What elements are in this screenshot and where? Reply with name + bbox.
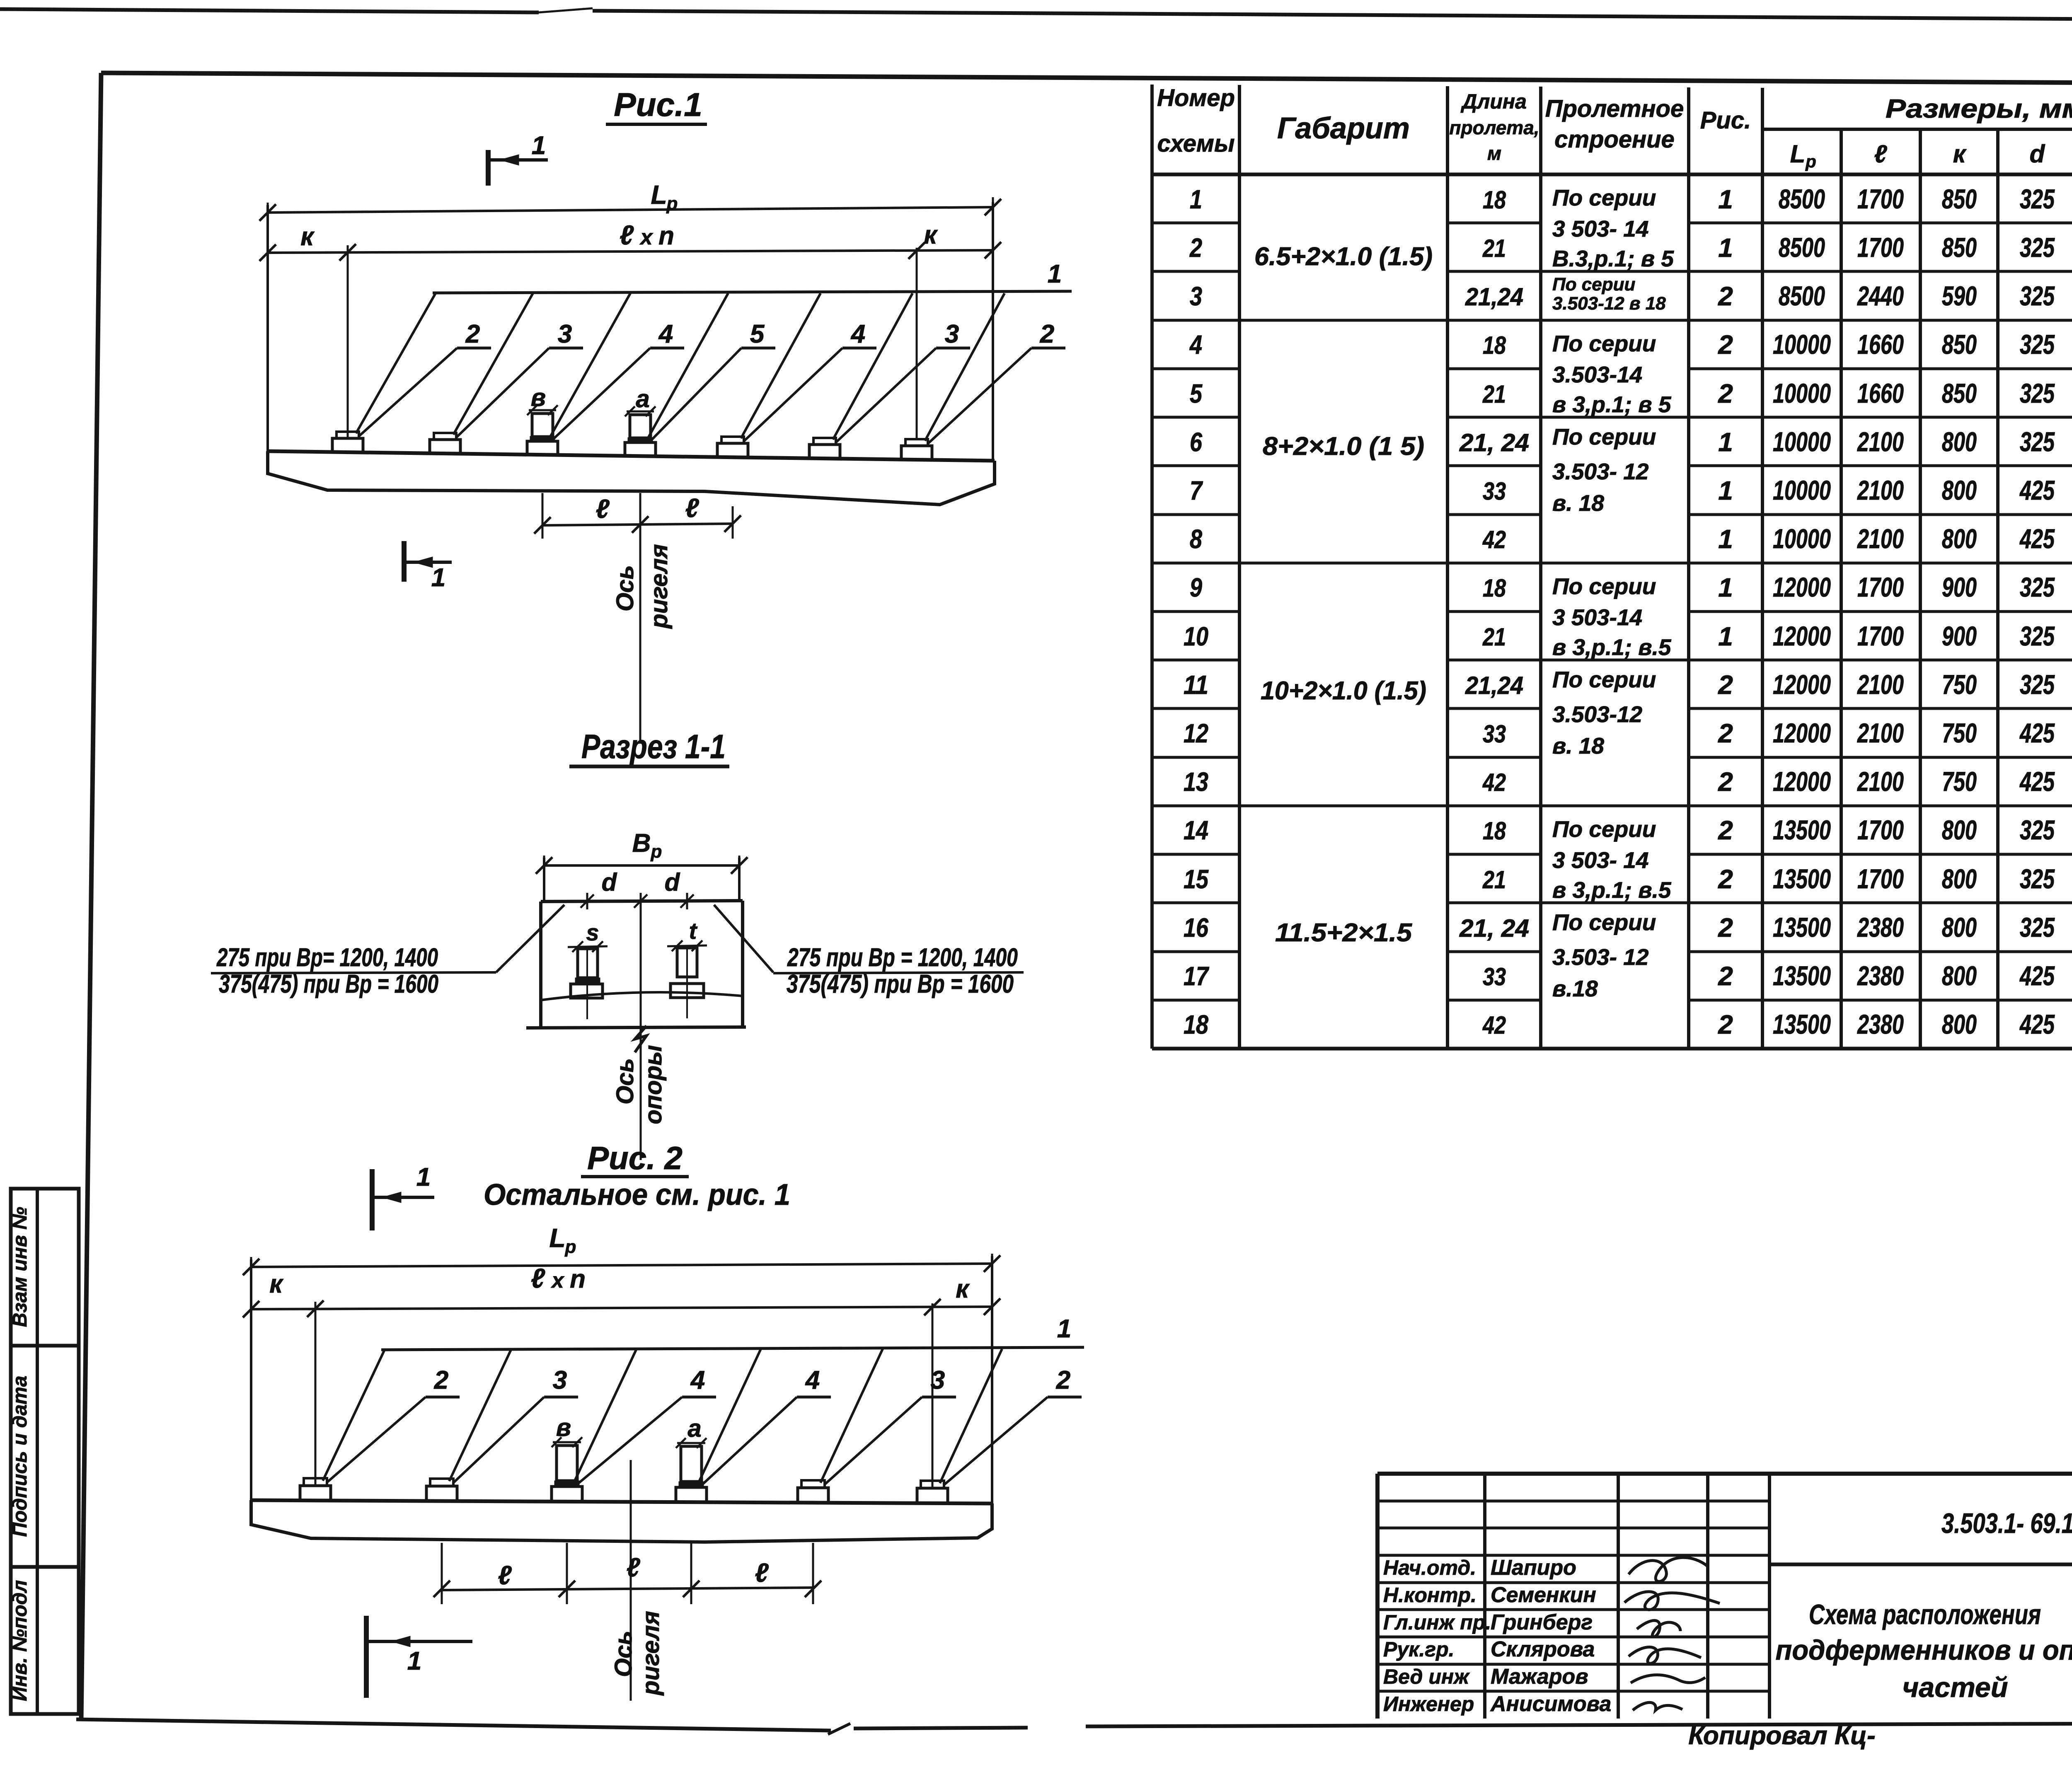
extension line k-right fig2 bbox=[932, 1303, 934, 1488]
svg-text:325: 325 bbox=[2020, 232, 2055, 263]
table sub-header verticals (sizes columns) bbox=[1840, 129, 1843, 1049]
svg-text:a: a bbox=[687, 1414, 701, 1442]
crossbeam outline fig2 bbox=[251, 1500, 992, 1504]
svg-text:1: 1 bbox=[1718, 427, 1733, 457]
svg-text:2440: 2440 bbox=[1857, 280, 1904, 311]
svg-text:1700: 1700 bbox=[1857, 572, 1904, 602]
svg-text:ригеля: ригеля bbox=[637, 1611, 664, 1696]
svg-text:По серии: По серии bbox=[1552, 424, 1656, 450]
svg-text:13500: 13500 bbox=[1773, 815, 1831, 845]
svg-text:d: d bbox=[2030, 140, 2045, 168]
svg-text:10000: 10000 bbox=[1773, 475, 1831, 505]
bearing pad 1 fig1 bbox=[332, 438, 363, 452]
svg-text:8500: 8500 bbox=[1779, 184, 1825, 214]
svg-text:Номер: Номер bbox=[1157, 85, 1235, 111]
svg-text:ригеля: ригеля bbox=[646, 544, 673, 629]
svg-text:L: L bbox=[1790, 140, 1806, 168]
extension line k-left fig2 bbox=[315, 1302, 317, 1487]
section marker bottom fig2 bbox=[364, 1616, 369, 1698]
svg-text:к: к bbox=[956, 1275, 970, 1303]
svg-text:750: 750 bbox=[1942, 718, 1977, 748]
svg-text:Подпись и дата: Подпись и дата bbox=[9, 1375, 31, 1537]
svg-text:425: 425 bbox=[2019, 718, 2055, 748]
svg-text:2380: 2380 bbox=[1857, 960, 1904, 991]
svg-text:21: 21 bbox=[1482, 866, 1506, 894]
extension lines Bp section bbox=[543, 858, 545, 902]
svg-text:р: р bbox=[651, 841, 662, 862]
svg-text:ℓ: ℓ bbox=[626, 1552, 640, 1582]
bearing pad 5 fig2 bbox=[798, 1488, 828, 1503]
svg-text:6: 6 bbox=[1190, 427, 1202, 457]
bearing pad 1 fig2 bbox=[300, 1486, 331, 1501]
svg-text:325: 325 bbox=[2020, 815, 2055, 845]
svg-text:Шапиро: Шапиро bbox=[1491, 1556, 1576, 1580]
svg-text:800: 800 bbox=[1942, 960, 1977, 991]
svg-text:12000: 12000 bbox=[1773, 766, 1831, 797]
dimension line l x n fig2 bbox=[251, 1307, 992, 1309]
svg-text:2: 2 bbox=[1718, 1010, 1733, 1039]
bearing pad 7 fig1 bbox=[901, 446, 932, 460]
svg-text:21: 21 bbox=[1482, 380, 1506, 408]
svg-text:1: 1 bbox=[1718, 476, 1733, 505]
note leader left section bbox=[496, 905, 564, 972]
svg-text:2100: 2100 bbox=[1857, 523, 1904, 554]
section marker 1-1 top bbox=[486, 150, 491, 186]
svg-text:425: 425 bbox=[2019, 1009, 2055, 1039]
svg-text:Копировал Кц-: Копировал Кц- bbox=[1688, 1721, 1876, 1750]
svg-text:частей: частей bbox=[1903, 1672, 2008, 1703]
svg-text:n: n bbox=[570, 1265, 586, 1293]
svg-text:2: 2 bbox=[1718, 961, 1733, 991]
svg-text:2: 2 bbox=[1718, 864, 1733, 894]
svg-text:пролета,: пролета, bbox=[1449, 117, 1539, 138]
svg-text:12: 12 bbox=[1184, 718, 1208, 748]
svg-text:d: d bbox=[602, 868, 617, 896]
svg-text:Нач.отд.: Нач.отд. bbox=[1383, 1556, 1476, 1579]
svg-text:18: 18 bbox=[1483, 331, 1506, 359]
svg-text:850: 850 bbox=[1942, 329, 1977, 360]
extension line right fig2 bbox=[991, 1256, 993, 1504]
svg-text:1: 1 bbox=[1057, 1315, 1071, 1343]
bearing pad 6 fig1 bbox=[809, 445, 840, 459]
section marker 1-1 bottom fig1 bbox=[402, 541, 407, 582]
svg-text:13500: 13500 bbox=[1773, 960, 1831, 991]
extension line k-left fig1 bbox=[347, 245, 349, 438]
axis of support line section bbox=[640, 902, 642, 1160]
dimension line Lp fig2 bbox=[251, 1264, 992, 1267]
svg-text:3 503- 14: 3 503- 14 bbox=[1552, 216, 1648, 242]
svg-text:13: 13 bbox=[1184, 767, 1208, 797]
bearing pad 4 fig1 bbox=[625, 442, 656, 456]
svg-text:Рис. 2: Рис. 2 bbox=[587, 1140, 683, 1176]
bearing pad 2 fig1 bbox=[430, 440, 460, 454]
svg-text:Анисимова: Анисимова bbox=[1490, 1692, 1611, 1716]
extension line left fig2 bbox=[250, 1259, 252, 1500]
svg-text:21,24: 21,24 bbox=[1465, 283, 1523, 311]
svg-text:ℓ: ℓ bbox=[755, 1558, 769, 1588]
svg-text:в 3,р.1; в.5: в 3,р.1; в.5 bbox=[1552, 877, 1672, 903]
svg-text:d: d bbox=[665, 868, 680, 896]
svg-text:2: 2 bbox=[1718, 330, 1733, 360]
svg-text:325: 325 bbox=[2020, 426, 2055, 457]
svg-text:325: 325 bbox=[2020, 378, 2055, 409]
svg-text:425: 425 bbox=[2019, 523, 2055, 554]
svg-text:4: 4 bbox=[1189, 330, 1202, 360]
svg-text:Рук.гр.: Рук.гр. bbox=[1383, 1638, 1455, 1661]
section box sides bbox=[539, 902, 542, 1027]
signature squiggles bbox=[1629, 1557, 1707, 1581]
svg-text:Гринберг: Гринберг bbox=[1491, 1610, 1593, 1634]
section box top / d dimension line bbox=[541, 901, 743, 902]
svg-text:1: 1 bbox=[1718, 621, 1733, 651]
svg-text:850: 850 bbox=[1942, 378, 1977, 409]
svg-text:Пролетное: Пролетное bbox=[1545, 95, 1684, 122]
svg-text:2100: 2100 bbox=[1857, 718, 1904, 748]
svg-text:12000: 12000 bbox=[1773, 621, 1831, 651]
table bottom line bbox=[1152, 1047, 2072, 1051]
svg-text:325: 325 bbox=[2020, 280, 2055, 311]
bearing pad 4 fig2 bbox=[676, 1487, 707, 1502]
dimension l l l under fig2 bbox=[441, 1543, 443, 1604]
svg-text:3: 3 bbox=[945, 320, 959, 348]
svg-text:в.18: в.18 bbox=[1552, 976, 1598, 1001]
extension line k-right fig1 bbox=[916, 248, 918, 438]
svg-text:800: 800 bbox=[1942, 475, 1977, 505]
svg-text:12000: 12000 bbox=[1773, 572, 1831, 602]
svg-text:8500: 8500 bbox=[1779, 280, 1825, 311]
svg-text:33: 33 bbox=[1483, 477, 1506, 505]
svg-text:x: x bbox=[551, 1269, 565, 1293]
svg-text:4: 4 bbox=[850, 320, 865, 348]
extension line right fig1 bbox=[992, 202, 994, 461]
svg-text:275 при Вр = 1200, 1400: 275 при Вр = 1200, 1400 bbox=[787, 943, 1018, 972]
svg-text:2380: 2380 bbox=[1857, 912, 1904, 943]
svg-text:3.503-12 в 18: 3.503-12 в 18 bbox=[1552, 293, 1666, 314]
svg-text:По серии: По серии bbox=[1552, 667, 1656, 692]
svg-text:800: 800 bbox=[1942, 863, 1977, 894]
dimension line l x n fig1 bbox=[268, 250, 993, 253]
svg-text:По серии: По серии bbox=[1552, 909, 1656, 935]
svg-text:3.503- 12: 3.503- 12 bbox=[1552, 459, 1649, 484]
svg-text:1: 1 bbox=[431, 563, 445, 592]
svg-text:строение: строение bbox=[1554, 126, 1675, 153]
svg-text:1: 1 bbox=[532, 131, 546, 160]
svg-text:к: к bbox=[924, 221, 938, 249]
svg-text:По серии: По серии bbox=[1552, 331, 1656, 356]
svg-text:в 3,р.1; в 5: в 3,р.1; в 5 bbox=[1552, 392, 1672, 417]
svg-text:18: 18 bbox=[1184, 1010, 1208, 1039]
leader lines to item 1 fig1 bbox=[356, 293, 436, 433]
svg-text:325: 325 bbox=[2020, 572, 2055, 602]
svg-text:1: 1 bbox=[1718, 233, 1733, 263]
svg-text:750: 750 bbox=[1942, 669, 1977, 700]
svg-text:Длина: Длина bbox=[1460, 90, 1527, 113]
svg-text:1: 1 bbox=[1048, 260, 1062, 288]
svg-text:750: 750 bbox=[1942, 766, 1977, 797]
svg-text:18: 18 bbox=[1483, 817, 1506, 845]
svg-text:325: 325 bbox=[2020, 621, 2055, 651]
title block signature grid bbox=[1483, 1474, 1486, 1719]
svg-text:1: 1 bbox=[1718, 573, 1733, 602]
svg-text:В: В bbox=[632, 829, 651, 858]
svg-text:3.503.1- 69.1: 3.503.1- 69.1 bbox=[1941, 1508, 2072, 1539]
svg-text:По серии: По серии bbox=[1552, 185, 1656, 210]
svg-text:6.5+2×1.0 (1.5): 6.5+2×1.0 (1.5) bbox=[1254, 242, 1433, 271]
svg-text:в: в bbox=[556, 1414, 571, 1441]
bearing pad 2 fig2 bbox=[426, 1486, 457, 1501]
svg-text:900: 900 bbox=[1942, 621, 1977, 651]
svg-text:L: L bbox=[549, 1223, 565, 1253]
svg-text:12000: 12000 bbox=[1773, 669, 1831, 700]
svg-text:5: 5 bbox=[750, 320, 765, 348]
drawing frame border bbox=[101, 73, 2072, 85]
svg-text:По серии: По серии bbox=[1552, 573, 1656, 599]
svg-text:L: L bbox=[651, 180, 667, 210]
pier top curve section bbox=[541, 992, 743, 1000]
svg-text:Ось: Ось bbox=[610, 1631, 637, 1677]
svg-text:11: 11 bbox=[1184, 670, 1208, 700]
svg-text:21, 24: 21, 24 bbox=[1459, 914, 1529, 942]
svg-text:3: 3 bbox=[931, 1366, 945, 1395]
svg-text:14: 14 bbox=[1184, 815, 1208, 845]
svg-text:42: 42 bbox=[1482, 526, 1506, 554]
svg-text:10+2×1.0 (1.5): 10+2×1.0 (1.5) bbox=[1261, 677, 1426, 705]
svg-text:Рис.1: Рис.1 bbox=[614, 86, 702, 123]
svg-text:р: р bbox=[666, 193, 678, 214]
svg-text:10000: 10000 bbox=[1773, 523, 1831, 554]
section marker near Fig.2 bbox=[370, 1169, 375, 1230]
svg-text:t: t bbox=[689, 918, 698, 944]
svg-text:275 при Вр= 1200, 1400: 275 при Вр= 1200, 1400 bbox=[216, 943, 438, 972]
svg-text:По серии: По серии bbox=[1552, 816, 1656, 842]
centerline axis of crossbeam fig1 bbox=[639, 493, 641, 744]
svg-text:1: 1 bbox=[1718, 184, 1733, 214]
svg-text:33: 33 bbox=[1483, 720, 1506, 748]
svg-text:Склярова: Склярова bbox=[1491, 1637, 1595, 1661]
svg-text:8+2×1.0 (1 5): 8+2×1.0 (1 5) bbox=[1263, 432, 1424, 461]
leader lines to item 1 fig2 bbox=[323, 1349, 385, 1481]
svg-text:Инженер: Инженер bbox=[1383, 1692, 1474, 1716]
svg-text:м: м bbox=[1487, 143, 1501, 164]
section box bottom bbox=[526, 1027, 746, 1028]
svg-text:33: 33 bbox=[1483, 963, 1506, 991]
svg-text:325: 325 bbox=[2020, 329, 2055, 360]
svg-text:ℓ: ℓ bbox=[685, 493, 699, 523]
svg-text:3.503-12: 3.503-12 bbox=[1552, 701, 1643, 727]
svg-text:2100: 2100 bbox=[1857, 475, 1904, 505]
svg-text:3.503-14: 3.503-14 bbox=[1552, 362, 1642, 387]
table header bottom line bbox=[1152, 173, 2072, 176]
doc number underline band bbox=[1769, 1563, 2072, 1566]
svg-text:2: 2 bbox=[1718, 281, 1733, 311]
svg-text:11.5+2×1.5: 11.5+2×1.5 bbox=[1275, 919, 1413, 947]
svg-text:По серии: По серии bbox=[1552, 274, 1635, 295]
svg-text:Разрез 1-1: Разрез 1-1 bbox=[581, 728, 726, 766]
svg-text:Остальное см. рис. 1: Остальное см. рис. 1 bbox=[484, 1178, 790, 1211]
svg-text:1: 1 bbox=[407, 1647, 421, 1675]
svg-text:10000: 10000 bbox=[1773, 378, 1831, 409]
svg-text:ℓ: ℓ bbox=[1874, 140, 1888, 168]
svg-text:Габарит: Габарит bbox=[1277, 112, 1410, 145]
svg-text:4: 4 bbox=[805, 1366, 820, 1395]
svg-text:325: 325 bbox=[2020, 863, 2055, 894]
svg-text:900: 900 bbox=[1942, 572, 1977, 602]
svg-text:18: 18 bbox=[1483, 574, 1506, 602]
svg-text:42: 42 bbox=[1482, 1011, 1506, 1039]
svg-text:800: 800 bbox=[1942, 912, 1977, 943]
dimension l l under fig1 bbox=[542, 493, 544, 539]
svg-text:7: 7 bbox=[1190, 476, 1203, 505]
callout line item 1 fig2 bbox=[381, 1347, 1084, 1350]
svg-text:2: 2 bbox=[1718, 379, 1733, 409]
frame bottom border with break bbox=[76, 1719, 831, 1731]
svg-text:3 503- 14: 3 503- 14 bbox=[1552, 847, 1648, 873]
table header split line sizes bbox=[1762, 128, 2072, 131]
svg-text:850: 850 bbox=[1942, 232, 1977, 263]
svg-text:18: 18 bbox=[1483, 186, 1506, 214]
svg-text:2: 2 bbox=[1718, 767, 1733, 797]
svg-text:р: р bbox=[1805, 152, 1816, 171]
svg-text:425: 425 bbox=[2019, 960, 2055, 991]
svg-text:2: 2 bbox=[1718, 718, 1733, 748]
svg-text:13500: 13500 bbox=[1773, 1009, 1831, 1039]
svg-text:к: к bbox=[1953, 140, 1967, 168]
bearing pad 6 fig2 bbox=[917, 1488, 948, 1503]
svg-text:1660: 1660 bbox=[1857, 378, 1904, 409]
svg-text:9: 9 bbox=[1190, 573, 1202, 602]
svg-text:10000: 10000 bbox=[1773, 426, 1831, 457]
svg-text:Семенкин: Семенкин bbox=[1491, 1583, 1596, 1607]
crossbeam outline fig1 bbox=[268, 451, 995, 461]
svg-text:21,24: 21,24 bbox=[1465, 672, 1523, 699]
svg-text:3: 3 bbox=[553, 1366, 567, 1395]
svg-text:ℓ: ℓ bbox=[531, 1263, 545, 1293]
svg-text:12000: 12000 bbox=[1773, 718, 1831, 748]
svg-text:590: 590 bbox=[1942, 280, 1977, 311]
svg-text:Гл.инж пр.: Гл.инж пр. bbox=[1383, 1611, 1491, 1634]
svg-text:в: в bbox=[531, 384, 546, 411]
svg-text:к: к bbox=[300, 222, 315, 251]
svg-text:2: 2 bbox=[1718, 913, 1733, 943]
svg-text:325: 325 bbox=[2020, 669, 2055, 700]
svg-text:21: 21 bbox=[1482, 623, 1506, 651]
svg-text:800: 800 bbox=[1942, 523, 1977, 554]
svg-text:1: 1 bbox=[416, 1163, 431, 1192]
svg-text:17: 17 bbox=[1184, 961, 1210, 991]
svg-text:2: 2 bbox=[1189, 233, 1202, 263]
svg-text:2100: 2100 bbox=[1857, 766, 1904, 797]
svg-text:1700: 1700 bbox=[1857, 621, 1904, 651]
svg-text:2: 2 bbox=[434, 1366, 448, 1395]
svg-text:2100: 2100 bbox=[1857, 669, 1904, 700]
bearing pad 3 fig2 bbox=[552, 1487, 582, 1501]
svg-text:21, 24: 21, 24 bbox=[1459, 429, 1529, 457]
svg-text:Размеры, мм: Размеры, мм bbox=[1886, 94, 2072, 123]
svg-text:Схема расположения: Схема расположения bbox=[1809, 1599, 2041, 1630]
svg-text:16: 16 bbox=[1184, 913, 1208, 943]
svg-text:4: 4 bbox=[690, 1366, 705, 1395]
svg-text:в. 18: в. 18 bbox=[1552, 733, 1604, 759]
svg-text:10000: 10000 bbox=[1773, 329, 1831, 360]
svg-text:800: 800 bbox=[1942, 426, 1977, 457]
svg-text:425: 425 bbox=[2019, 475, 2055, 505]
svg-text:ℓ: ℓ bbox=[595, 494, 610, 524]
svg-text:2: 2 bbox=[465, 320, 480, 348]
svg-text:Вед инж: Вед инж bbox=[1383, 1665, 1470, 1688]
svg-text:ℓ: ℓ bbox=[620, 220, 634, 250]
svg-text:8: 8 bbox=[1190, 524, 1202, 554]
callout line item 1 fig1 bbox=[433, 291, 1072, 293]
svg-text:3 503-14: 3 503-14 bbox=[1552, 604, 1642, 630]
table row lines bbox=[1689, 222, 2072, 225]
svg-text:3.503- 12: 3.503- 12 bbox=[1552, 944, 1649, 970]
svg-text:5: 5 bbox=[1190, 379, 1203, 409]
svg-text:425: 425 bbox=[2019, 766, 2055, 797]
svg-text:800: 800 bbox=[1942, 815, 1977, 845]
svg-text:Мажаров: Мажаров bbox=[1491, 1665, 1588, 1689]
svg-text:10: 10 bbox=[1184, 621, 1208, 651]
svg-text:13500: 13500 bbox=[1773, 863, 1831, 894]
note leader right section bbox=[714, 905, 773, 972]
svg-text:1: 1 bbox=[1190, 184, 1202, 214]
svg-text:Взам инв №: Взам инв № bbox=[9, 1207, 31, 1327]
svg-text:s: s bbox=[586, 919, 599, 945]
axis break mark section bbox=[635, 1026, 646, 1052]
svg-text:325: 325 bbox=[2020, 184, 2055, 214]
svg-text:В.3,р.1; в 5: В.3,р.1; в 5 bbox=[1552, 246, 1674, 271]
svg-text:3: 3 bbox=[558, 320, 572, 348]
svg-text:2: 2 bbox=[1718, 815, 1733, 845]
svg-text:42: 42 bbox=[1482, 769, 1506, 796]
svg-text:ℓ: ℓ bbox=[498, 1560, 512, 1590]
page top edge line bbox=[0, 9, 539, 12]
svg-text:13500: 13500 bbox=[1773, 912, 1831, 943]
centerline axis fig2 bbox=[630, 1460, 632, 1701]
svg-text:в. 18: в. 18 bbox=[1552, 490, 1604, 516]
svg-text:Н.контр.: Н.контр. bbox=[1383, 1583, 1477, 1607]
svg-text:x: x bbox=[639, 225, 654, 249]
left margin stamp strip bbox=[11, 1189, 79, 1346]
table outer verticals bbox=[1150, 85, 1154, 1049]
svg-text:Инв. №подл: Инв. №подл bbox=[9, 1580, 31, 1702]
svg-text:325: 325 bbox=[2020, 912, 2055, 943]
svg-text:Ось: Ось bbox=[612, 565, 639, 612]
svg-text:a: a bbox=[636, 385, 649, 413]
svg-text:15: 15 bbox=[1184, 864, 1209, 894]
dimension line Lp fig1 bbox=[268, 207, 993, 213]
svg-text:подферменников и опорных: подферменников и опорных bbox=[1776, 1634, 2072, 1666]
svg-text:3: 3 bbox=[1190, 281, 1202, 311]
svg-text:Рис.: Рис. bbox=[1700, 107, 1751, 134]
bearing pad 3 fig1 bbox=[527, 441, 558, 455]
svg-text:2100: 2100 bbox=[1857, 426, 1904, 457]
svg-text:2: 2 bbox=[1056, 1366, 1070, 1395]
svg-text:Ось: Ось bbox=[612, 1058, 639, 1105]
svg-text:1700: 1700 bbox=[1857, 184, 1904, 214]
svg-text:1700: 1700 bbox=[1857, 232, 1904, 263]
svg-text:схемы: схемы bbox=[1157, 130, 1235, 157]
svg-text:n: n bbox=[658, 222, 674, 250]
svg-text:21: 21 bbox=[1482, 234, 1506, 262]
svg-text:850: 850 bbox=[1942, 184, 1977, 214]
bearing pad 5 fig1 bbox=[717, 443, 748, 457]
title block outer box bbox=[1377, 1472, 2072, 1476]
svg-text:1700: 1700 bbox=[1857, 863, 1904, 894]
svg-text:8500: 8500 bbox=[1779, 232, 1825, 263]
svg-text:4: 4 bbox=[658, 320, 673, 348]
svg-text:1: 1 bbox=[1718, 524, 1733, 554]
svg-text:в 3,р.1; в.5: в 3,р.1; в.5 bbox=[1552, 634, 1672, 660]
